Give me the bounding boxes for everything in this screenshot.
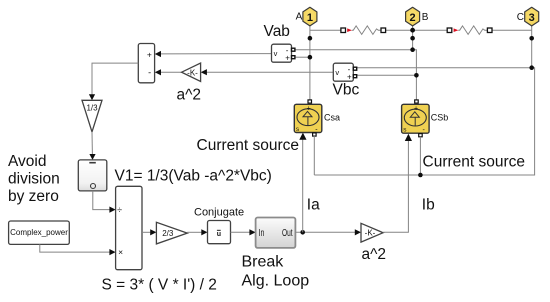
Complex_power source block (9, 221, 70, 244)
wire: node B to resistor R2 (413, 29, 447, 31)
junction node A upper (308, 36, 313, 41)
arrowhead into gain a^2 input (201, 69, 207, 75)
controlled current source Csa (294, 100, 322, 136)
Break Alg. Loop subsystem block (In/Out) (256, 218, 296, 248)
arrowhead into Conjugate (201, 229, 207, 235)
gain block a^2 (left-pointing -K-) (182, 63, 201, 82)
wire: product output to 2/3 gain (142, 231, 151, 233)
port 3 (phase C input hexagon) (525, 7, 539, 26)
svg-text:Out: Out (282, 228, 293, 239)
wire: resistor R2 right terminal to node C (492, 29, 532, 31)
svg-text:2: 2 (410, 12, 416, 24)
svg-text:Csa: Csa (324, 112, 340, 122)
wire: resistor R1 right terminal to node B (386, 29, 413, 31)
wire: 2/3 gain to Conjugate (187, 231, 202, 233)
svg-text:Ib: Ib (422, 196, 435, 213)
arrowhead into sum + input (155, 51, 161, 57)
sum block (Vab - a^2*Vbc) (138, 44, 154, 83)
svg-text:3: 3 (529, 12, 535, 24)
svg-text:C: C (517, 12, 524, 23)
svg-text:Current source: Current source (197, 137, 300, 154)
gain block 1/3 (down-pointing triangle) (82, 100, 102, 132)
svg-text:×: × (118, 247, 123, 257)
junction on return line at CSb (418, 173, 423, 178)
wire: Ia up to Csa s input (302, 139, 304, 232)
svg-text:u: u (217, 231, 221, 238)
svg-text:v: v (335, 68, 339, 77)
port 1 (phase A input hexagon) (303, 7, 317, 26)
wire: Vab + terminal to node A (295, 56, 310, 58)
svg-text:+: + (307, 105, 311, 112)
voltage measurement block Vab (272, 44, 295, 62)
wire: Vbc + terminal to node B (357, 74, 416, 76)
svg-text:by zero: by zero (8, 188, 59, 205)
arrowhead into Break Alg. Loop (249, 229, 255, 235)
svg-text:B: B (422, 12, 429, 23)
svg-text:-K-: -K- (187, 68, 198, 77)
arrowhead (s input of CSb) (405, 134, 412, 141)
svg-text:division: division (8, 171, 60, 188)
arrowhead into lower gain a^2 (355, 229, 361, 235)
svg-text:2/3: 2/3 (162, 229, 174, 238)
svg-text:Conjugate: Conjugate (194, 207, 244, 219)
svg-text:-K-: -K- (365, 229, 376, 238)
svg-text:-: - (148, 67, 151, 77)
gain block a^2 lower (right-pointing -K-) (361, 223, 383, 242)
gain block 2/3 (right-pointing triangle) (156, 222, 187, 244)
wire: lower gain output right and up to CSb s input (383, 140, 408, 232)
svg-text:1: 1 (307, 12, 313, 24)
wire: Out to gain a^2 (lower) with Ia tap (295, 231, 355, 233)
arrowhead into 1/3 gain (89, 94, 95, 100)
voltage measurement block Vbc (333, 63, 356, 81)
svg-text:Vbc: Vbc (333, 81, 360, 98)
svg-text:Complex_power: Complex_power (10, 228, 68, 237)
wire: Vbc output to gain a^2 input (206, 71, 333, 73)
svg-text:In: In (259, 228, 265, 239)
svg-text:Alg. Loop: Alg. Loop (242, 273, 310, 290)
svg-text:Current source: Current source (423, 154, 526, 171)
svg-text:+: + (347, 73, 352, 82)
wire: vertical drop node A (port 1 to Csa + terminal) (309, 24, 311, 100)
wire: Vab - terminal to node B (295, 49, 413, 51)
svg-text:CSb: CSb (431, 112, 449, 122)
wire: Vab output to sum + input (160, 53, 272, 55)
wire: 1/3 gain down to saturation block (91, 132, 93, 155)
Conjugate block (u bar) (208, 221, 231, 244)
resistor R2 (447, 26, 492, 35)
resistor R1 (341, 26, 386, 35)
wire: vertical drop node B (port 2 to CSb + terminal, jog at Vab- tap) (413, 24, 417, 100)
wire: vertical drop node C (port 3 to Vbc- tap) (531, 25, 533, 68)
svg-text:Ia: Ia (307, 196, 320, 213)
svg-text:S = 3* ( V * I') / 2: S = 3* ( V * I') / 2 (102, 277, 217, 294)
junction node B upper (410, 36, 415, 41)
svg-text:1/3: 1/3 (86, 104, 98, 113)
wire: gain a^2 output to sum - input (160, 71, 182, 73)
junction node C / Vbc- tap (529, 65, 534, 70)
wire: node A line from port 1 to resistor R1 (310, 29, 341, 31)
svg-text:a^2: a^2 (177, 87, 202, 104)
wire: CSb - terminal down to return line (419, 137, 421, 175)
wire: Csa - terminal down to return line (313, 136, 315, 175)
junction node B / Vab- tap (410, 47, 415, 52)
arrowhead into product divide input (109, 207, 115, 213)
junction node C upper (529, 36, 534, 41)
svg-text:v: v (274, 49, 278, 58)
svg-text:V1= 1/3(Vab -a^2*Vbc): V1= 1/3(Vab -a^2*Vbc) (115, 168, 272, 185)
junction node B on bus (410, 28, 415, 33)
wire: saturation block down and right to product divide input (93, 191, 111, 210)
wire: return line to node C riser (314, 68, 534, 175)
svg-text:Vab: Vab (264, 23, 290, 40)
controlled current source CSb (402, 100, 430, 137)
svg-text:+: + (285, 54, 290, 63)
wire: Conjugate to Break Alg. Loop In (231, 231, 251, 233)
svg-text:Break: Break (242, 254, 285, 271)
svg-text:+: + (147, 49, 152, 59)
arrowhead into product multiply input (109, 249, 115, 255)
saturation block (avoid division by zero) (78, 160, 107, 191)
arrowhead into 2/3 gain (150, 229, 156, 235)
junction node A / Vab+ tap (308, 55, 313, 60)
product block (divide) (116, 186, 142, 269)
svg-text:A: A (296, 12, 303, 23)
wire: Vbc - terminal to node C (357, 67, 532, 69)
wire: sum output down to 1/3 gain (92, 63, 138, 95)
svg-text:+: + (414, 105, 418, 112)
svg-text:Avoid: Avoid (8, 153, 47, 170)
junction node B / Vbc+ tap (414, 73, 419, 78)
node Ia junction (300, 230, 305, 235)
arrowhead into sum - input (155, 69, 161, 75)
svg-text:÷: ÷ (117, 205, 122, 215)
arrowhead into saturation block (89, 154, 95, 160)
svg-text:a^2: a^2 (362, 246, 387, 263)
arrowhead (s input of Csa) (299, 133, 306, 140)
port 2 (phase B input hexagon) (406, 7, 420, 26)
wire: Complex_power down and right to product multiply input (40, 244, 111, 252)
